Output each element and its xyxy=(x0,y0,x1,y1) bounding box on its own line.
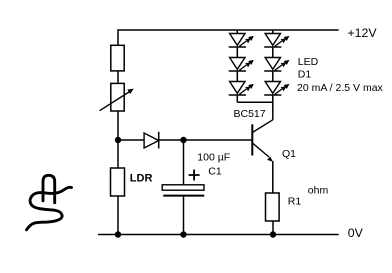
value label 20 mA / 2.5 V max xyxy=(297,82,384,94)
node +12V label xyxy=(348,26,378,40)
wire bottom 0V rail xyxy=(98,234,339,236)
svg-text:100 µF: 100 µF xyxy=(197,151,230,163)
wire preset to LDR node xyxy=(117,111,119,140)
wire left string down to jog xyxy=(236,95,238,102)
value label 100 uF xyxy=(197,151,230,163)
svg-text:BC517: BC517 xyxy=(234,108,266,120)
wire node to diode anode xyxy=(118,139,144,141)
type label BC517 xyxy=(234,108,266,120)
wire left drop from +12V rail xyxy=(117,29,119,45)
resistor (fixed, top left) xyxy=(111,45,124,71)
junction node LDR/diode xyxy=(115,137,121,143)
LED label xyxy=(298,56,319,68)
svg-text:C1: C1 xyxy=(208,166,222,178)
wire top +12V rail xyxy=(118,29,339,31)
wire left LED string top xyxy=(236,30,238,34)
LED D1 string left #1 xyxy=(229,34,254,48)
svg-text:+12V: +12V xyxy=(348,26,378,40)
LED D1 string left #2 xyxy=(229,58,254,72)
designator label R1 xyxy=(288,195,302,207)
junction node capacitor/0V xyxy=(180,231,186,237)
wire right string to collector elbow xyxy=(272,95,274,120)
node 0V label xyxy=(348,226,364,240)
svg-text:Q1: Q1 xyxy=(282,148,296,160)
transistor Q1 BC517 xyxy=(252,120,273,162)
designator label Q1 xyxy=(282,148,296,160)
wire xyxy=(236,47,238,58)
LDR xyxy=(111,168,125,196)
wire emitter to R1 xyxy=(272,161,274,193)
svg-text:20 mA / 2.5 V max: 20 mA / 2.5 V max xyxy=(297,82,384,94)
svg-text:R1: R1 xyxy=(288,195,302,207)
svg-text:D1: D1 xyxy=(298,68,312,80)
resistor R1 xyxy=(266,193,280,221)
wire xyxy=(272,47,274,58)
designator label D1 xyxy=(298,68,312,80)
LED D1 string right #2 xyxy=(264,58,289,72)
LED D1 string right #3 xyxy=(264,82,289,96)
LDR label xyxy=(130,172,153,184)
wire capacitor bottom lead xyxy=(183,196,185,235)
wire right LED string top xyxy=(272,30,274,34)
svg-text:ohm: ohm xyxy=(308,185,329,197)
wire LDR to 0V rail xyxy=(117,196,119,235)
svg-text:0V: 0V xyxy=(348,226,364,240)
diode xyxy=(144,132,159,149)
wire between resistor and preset xyxy=(117,71,119,84)
svg-text:LDR: LDR xyxy=(130,172,153,184)
junction node LDR/0V xyxy=(115,231,121,237)
wire capacitor top lead xyxy=(183,140,185,185)
junction node capacitor/base xyxy=(180,137,186,143)
LED D1 string left #3 xyxy=(229,82,254,96)
junction node R1/0V xyxy=(270,231,276,237)
wire LDR node down xyxy=(117,140,119,168)
wire diode cathode to transistor base xyxy=(159,139,253,141)
wire xyxy=(236,71,238,82)
capacitor plus sign xyxy=(189,170,200,181)
unit label ohm xyxy=(308,185,329,197)
wire xyxy=(272,71,274,82)
variable resistor (preset) xyxy=(100,83,134,111)
signature logo xyxy=(27,175,72,230)
designator label C1 xyxy=(208,166,222,178)
svg-text:LED: LED xyxy=(298,56,319,68)
capacitor C1 xyxy=(162,185,204,196)
wire jog left string to collector xyxy=(237,101,272,103)
LED D1 string right #1 xyxy=(264,34,289,48)
wire R1 to 0V rail xyxy=(272,221,274,235)
